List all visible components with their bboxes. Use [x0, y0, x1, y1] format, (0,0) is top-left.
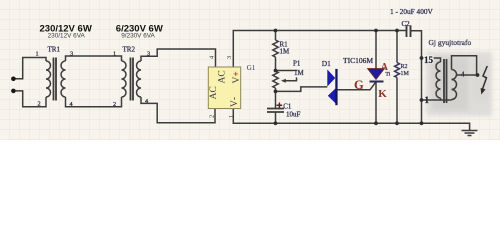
- svg-text:3: 3: [147, 51, 150, 58]
- svg-text:9/230V 6VA: 9/230V 6VA: [121, 32, 155, 39]
- svg-text:G1: G1: [247, 64, 256, 72]
- svg-text:2: 2: [113, 101, 116, 108]
- svg-text:C1: C1: [283, 103, 292, 111]
- svg-text:3: 3: [70, 50, 73, 57]
- svg-text:TIC106M: TIC106M: [343, 56, 373, 65]
- svg-text:1M: 1M: [280, 48, 291, 56]
- svg-text:1 - 20uF 400V: 1 - 20uF 400V: [390, 7, 433, 16]
- svg-text:Gj gyujtotrafo: Gj gyujtotrafo: [429, 38, 472, 47]
- svg-text:1M: 1M: [294, 69, 305, 77]
- svg-text:A: A: [381, 62, 389, 73]
- svg-text:1: 1: [425, 95, 430, 105]
- svg-text:15: 15: [424, 55, 434, 65]
- svg-text:K: K: [378, 88, 387, 100]
- svg-text:TR2: TR2: [123, 46, 136, 54]
- svg-text:D1: D1: [322, 59, 331, 68]
- svg-text:G: G: [354, 78, 364, 92]
- svg-text:1: 1: [36, 50, 39, 57]
- svg-text:AC: AC: [209, 86, 219, 99]
- svg-text:4: 4: [461, 70, 465, 78]
- svg-text:1M: 1M: [401, 71, 410, 77]
- svg-text:TR1: TR1: [48, 46, 61, 54]
- svg-text:3: 3: [226, 56, 233, 59]
- svg-text:1: 1: [113, 50, 116, 57]
- svg-text:2: 2: [38, 100, 41, 107]
- svg-text:2: 2: [209, 115, 216, 118]
- svg-text:AC: AC: [218, 70, 228, 83]
- svg-text:230/12V 6VA: 230/12V 6VA: [48, 32, 86, 39]
- svg-text:V+: V+: [232, 71, 242, 83]
- svg-text:P1: P1: [293, 60, 301, 68]
- svg-text:10uF: 10uF: [286, 111, 301, 119]
- svg-text:V-: V-: [230, 97, 240, 107]
- svg-text:C2: C2: [402, 20, 411, 28]
- svg-text:1: 1: [228, 115, 235, 118]
- svg-text:R2: R2: [401, 64, 408, 70]
